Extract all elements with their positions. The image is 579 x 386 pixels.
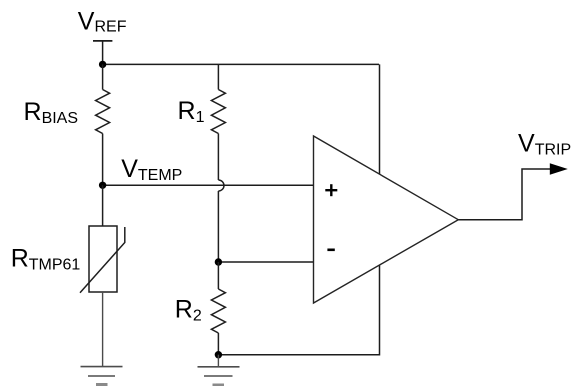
op-amp + input marker (325, 184, 337, 196)
terminal VTRIP arrow (550, 163, 568, 175)
node R2 bottom junction dot (215, 351, 222, 358)
node R2 top junction dot (215, 258, 222, 265)
wire R2 to ground (217, 355, 219, 367)
op-amp - input marker (327, 249, 334, 252)
resistor R2 (211, 262, 225, 355)
terminal VREF bar (93, 40, 112, 42)
node VREF junction dot (99, 61, 106, 68)
wire VTEMP to + input (103, 184, 314, 186)
node VTEMP junction dot (99, 182, 106, 189)
resistor RBIAS (96, 64, 110, 185)
wire right side feedback (218, 64, 379, 354)
resistor R1 (211, 64, 225, 262)
wire - input (218, 261, 313, 263)
ground right (198, 367, 240, 386)
wire output (458, 169, 551, 220)
wire thermistor to ground (102, 292, 104, 367)
thermistor RTMP61 (80, 185, 125, 292)
op-amp U1 triangle (314, 136, 459, 303)
wire VREF lead (102, 41, 104, 65)
wire top rail (103, 63, 379, 65)
ground left (81, 367, 123, 386)
